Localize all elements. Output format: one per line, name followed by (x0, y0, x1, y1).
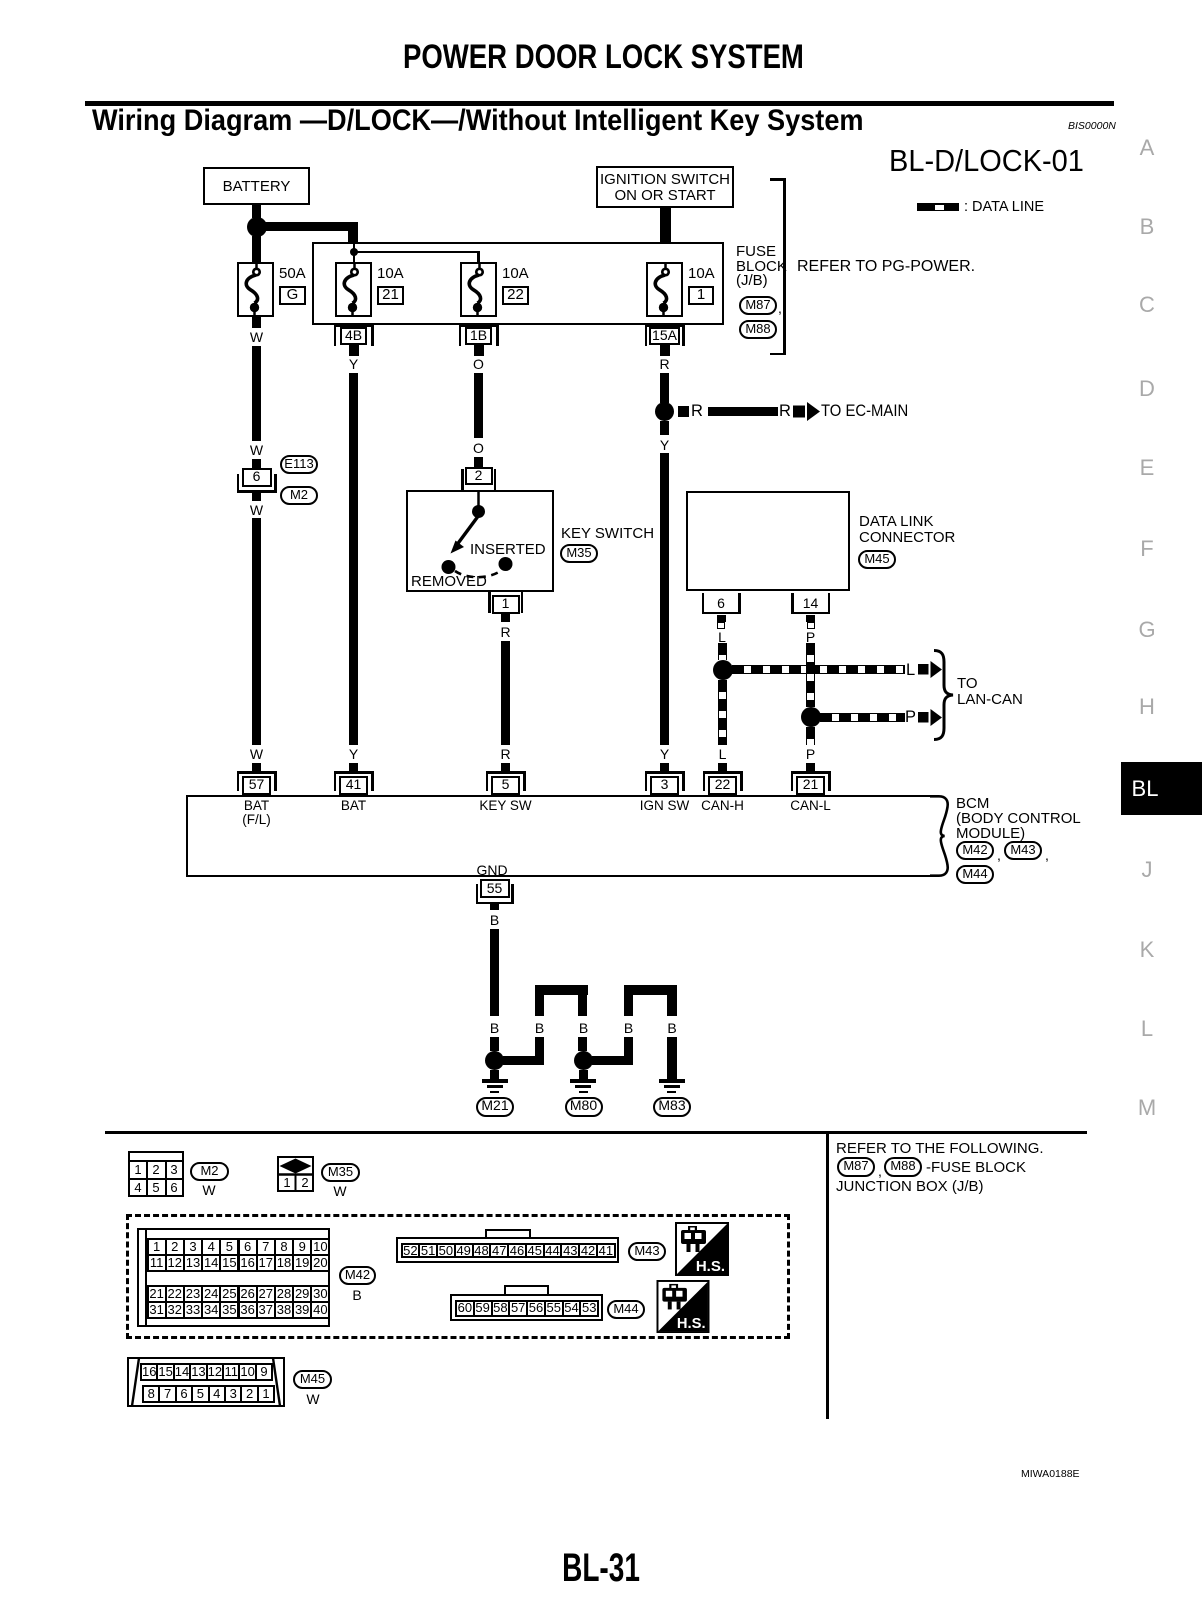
sidebar letter H (1139, 696, 1155, 718)
label B n2 right (667, 1021, 676, 1035)
wire stub below connector 6 (252, 491, 261, 502)
M42 cells row 3 (147, 1285, 167, 1303)
label O above key switch (473, 441, 484, 455)
connector 1B (459, 324, 499, 327)
sidebar letter F (1140, 538, 1153, 560)
node fuse feed junction (350, 248, 358, 256)
sidebar letter J (1142, 859, 1153, 881)
label L above pin 22 (719, 747, 727, 761)
wire battery to node (252, 205, 261, 218)
connector ref M43 face (628, 1242, 666, 1261)
svg-text:H.S.: H.S. (677, 1316, 706, 1332)
label W (250, 330, 263, 344)
wire Y ignition to BCM (660, 453, 669, 745)
label Y (349, 357, 358, 371)
data link connector M45 (686, 491, 850, 591)
wire P data line lower (806, 727, 815, 745)
wire feed inside block to fuse 21 (353, 242, 356, 268)
wire feed drop to fuse block (348, 222, 358, 242)
connector 15A (645, 324, 685, 327)
M42 cells row 4 (147, 1301, 167, 1319)
label CAN-L (790, 799, 831, 813)
key switch M35 (406, 490, 554, 592)
header rule (85, 101, 1114, 106)
node ground junction M80 (574, 1051, 593, 1070)
connector 4B (334, 324, 374, 327)
wire link junction M80 to loop2 (592, 1056, 624, 1066)
node battery junction (247, 217, 267, 237)
label B n2 left (624, 1021, 633, 1035)
sidebar letter A (1140, 137, 1155, 159)
connector pin 2 key switch (461, 469, 464, 490)
label W above connector 6 (250, 443, 263, 457)
label 10A fuse22 (502, 266, 529, 281)
connector ref M2 (280, 486, 318, 505)
label O (473, 357, 484, 371)
label DATA LINK CONNECTOR (859, 514, 933, 530)
figure code MIWA0188E (1021, 1469, 1080, 1480)
wire ignition inside fuse block (664, 242, 667, 268)
sidebar letter K (1140, 939, 1155, 961)
wire stub into pin 41 (349, 763, 358, 772)
connector ref M42 face (339, 1266, 376, 1285)
label box 1 (688, 286, 714, 305)
wire stub into pin 57 (252, 763, 261, 772)
connector pin 14 DLC (791, 593, 794, 614)
connector pin 57 BCM BAT F/L (237, 771, 277, 774)
wire feed to fuse 22 (353, 251, 479, 254)
label FUSE BLOCK (J/B) (736, 245, 776, 260)
wire stub into pin 3 (660, 763, 669, 772)
connector pin 3 BCM IGN SW (645, 771, 685, 774)
label 50A (279, 266, 306, 281)
wire W to BCM (252, 518, 261, 745)
connector ref M88 (739, 320, 777, 339)
label BAT (341, 799, 366, 813)
wire stub 1B (474, 345, 484, 356)
wire stub fuse 50A out (252, 317, 261, 328)
connector pin 22 BCM CAN-H (703, 771, 743, 774)
node ground junction M21 (485, 1051, 504, 1070)
arrow L to LAN-CAN (918, 661, 942, 678)
wire stub 15A (660, 345, 670, 356)
wire Y (349, 373, 358, 745)
label 10A fuse1 (688, 266, 715, 281)
ground ref M83 (653, 1097, 691, 1117)
label REFER TO PG-POWER. (797, 259, 975, 275)
ground ref M21 (476, 1097, 514, 1117)
wire O (474, 373, 483, 438)
connector ref E113 (280, 455, 318, 474)
wire L data line upper (718, 643, 727, 660)
ground M21 symbol (482, 1079, 508, 1083)
ground ref M80 (565, 1097, 603, 1117)
wire R branch to EC-MAIN (678, 406, 690, 418)
label TO LAN-CAN (957, 676, 978, 692)
label W under M2 (202, 1183, 215, 1197)
sidebar letter B (1140, 216, 1155, 238)
fuse 10A 22 (460, 262, 497, 317)
wire L data line to LAN (732, 665, 905, 674)
connector ref M88 footer (884, 1157, 922, 1177)
sidebar tab BL (1121, 762, 1202, 815)
label BAT (F/L) (244, 799, 269, 813)
connector ref M43 (1004, 841, 1042, 860)
label Y above pin 41 (349, 747, 358, 761)
wire R ignition (660, 373, 669, 403)
connector pin 1 key switch (488, 592, 491, 613)
wire B ground (490, 929, 499, 1016)
connector ref M45 face (293, 1370, 332, 1389)
connector pin 6 DLC (702, 593, 705, 614)
wire loop2 right leg to M83 (667, 1037, 677, 1080)
sidebar letter E (1140, 457, 1155, 479)
wire stub below key switch (501, 614, 510, 623)
M42 cells row 1 (147, 1238, 167, 1256)
wire loop2 (624, 985, 634, 1016)
label TO EC-MAIN (821, 403, 908, 420)
wire stub into pin 22 (718, 763, 727, 772)
connector ref M42 (956, 841, 994, 860)
sidebar letter D (1139, 378, 1155, 400)
M45 cells row 2 (142, 1385, 160, 1403)
wire link junction M21 to loop1 (503, 1056, 535, 1066)
sidebar letter G (1138, 619, 1155, 641)
label L at arrow (906, 662, 915, 679)
label P at arrow (905, 709, 916, 726)
label P above pin 21 (806, 747, 815, 761)
label P below pin 14 (806, 630, 815, 644)
label W under M45 (306, 1392, 319, 1406)
high speed icon 1 (675, 1222, 729, 1276)
label KEY SW (479, 799, 531, 813)
sidebar letter C (1139, 294, 1155, 316)
label JUNCTION BOX (J/B) (836, 1179, 984, 1194)
wire battery feed horizontal (256, 222, 357, 232)
ground M83 symbol (659, 1079, 685, 1083)
connector face M35 (277, 1156, 314, 1192)
wire battery to fuse 50A (252, 236, 261, 262)
label R (659, 357, 669, 371)
label REFER TO THE FOLLOWING. (836, 1141, 1044, 1156)
separator rule (105, 1131, 1087, 1134)
label 10A fuse21 (377, 266, 404, 281)
page title (403, 40, 804, 74)
wire P data line to LAN (820, 713, 905, 722)
battery (203, 167, 310, 205)
bracket refer pg-power (783, 178, 786, 355)
wire stub 4B (349, 345, 359, 356)
connector ref M44 face (607, 1300, 645, 1319)
label W under M35 (333, 1184, 346, 1198)
fuse 10A 1 (646, 262, 683, 317)
high speed icon 2 (656, 1280, 710, 1333)
sidebar letter L (1141, 1018, 1153, 1040)
M43 cells (401, 1243, 421, 1259)
fuse block J/B (312, 242, 724, 325)
wire loop1 right stub (578, 1037, 588, 1051)
label B under M42 (352, 1288, 361, 1302)
label INSERTED (470, 542, 546, 557)
connector ref M87 footer (837, 1157, 875, 1177)
connector pin 5 BCM KEY SW (486, 771, 526, 774)
connector pin 21 BCM CAN-L (791, 771, 831, 774)
label B at M21 (490, 1021, 499, 1035)
label B n1 left (535, 1021, 544, 1035)
label REMOVED (411, 574, 487, 589)
arrow P to LAN-CAN (918, 709, 942, 726)
wire P data line upper (806, 643, 815, 707)
wire B stub to M21 junction (490, 1037, 499, 1051)
separator vertical (826, 1131, 829, 1419)
connector pin 55 BCM GND (480, 879, 510, 898)
wire stub into pin 21 (806, 763, 815, 772)
connector ref M87 (739, 296, 777, 315)
harness dashed box (126, 1214, 790, 1339)
data line legend (917, 203, 959, 211)
label box 21 (377, 286, 404, 305)
wire ignition drop (660, 208, 671, 243)
label box G (279, 286, 306, 305)
connector ref M45 (858, 550, 896, 569)
wire stub into pin 5 (501, 763, 510, 772)
BCM body control module (186, 795, 943, 877)
wire stub below pin 55 (490, 904, 499, 910)
section heading (92, 106, 864, 136)
wire stub into key switch pin 2 (474, 457, 483, 467)
svg-text:H.S.: H.S. (696, 1258, 725, 1275)
fuse 50A G (237, 262, 274, 317)
connector face M43 (485, 1229, 531, 1241)
node L junction (713, 660, 733, 680)
label R below key switch (500, 625, 510, 639)
code BIS0000N (1068, 121, 1116, 132)
node R junction to EC-MAIN (655, 402, 674, 421)
connector face M45 (127, 1357, 285, 1407)
wire stub into connector 6 (252, 459, 261, 468)
wire R to BCM (501, 641, 510, 745)
wire stub below junction (660, 421, 669, 436)
M42 cells row 2 (147, 1254, 167, 1272)
connector face M42 (137, 1228, 330, 1327)
label B n1 right (579, 1021, 588, 1035)
label box 22 (502, 286, 529, 305)
label IGN SW (640, 799, 690, 813)
brace TO LAN-CAN (933, 649, 957, 741)
sheet id BL-D/LOCK-01 (889, 145, 1084, 176)
label W below connector 6 (250, 503, 263, 517)
wire stub M80 ground (579, 1070, 588, 1080)
label Y above pin 3 (660, 747, 669, 761)
M44 cells (455, 1300, 475, 1317)
connector ref M35 face (321, 1163, 360, 1182)
label R above pin 5 (500, 747, 510, 761)
label Y below junction (660, 438, 669, 452)
node P junction (801, 707, 821, 727)
M45 cells row 1 (140, 1363, 158, 1381)
wire L data line lower (718, 680, 727, 746)
connector ref M44 (956, 865, 994, 884)
label CAN-H (701, 799, 744, 813)
label BCM (956, 796, 989, 811)
label W above pin 57 (250, 747, 263, 761)
wire loop1 (535, 985, 545, 1016)
label KEY SWITCH (561, 526, 654, 541)
sidebar letter M (1138, 1097, 1156, 1119)
connector 6 E113/M2 (237, 474, 240, 493)
label B below pin 55 (490, 913, 499, 927)
wire W battery feed (252, 346, 261, 441)
connector face M44 (504, 1285, 549, 1297)
wire stub M21 ground (490, 1070, 499, 1080)
fuse 10A 21 (335, 262, 372, 317)
label L below pin 6 (718, 630, 726, 644)
ground M80 symbol (570, 1079, 596, 1083)
label GND (476, 863, 507, 877)
connector face M2 (128, 1151, 184, 1197)
connector pin 41 BCM BAT (334, 771, 374, 774)
label -FUSE BLOCK (926, 1160, 1026, 1175)
connector ref M35 (560, 544, 598, 563)
ignition switch (596, 166, 734, 208)
connector ref M2 face (190, 1162, 229, 1181)
page number BL-31 (562, 1548, 640, 1588)
